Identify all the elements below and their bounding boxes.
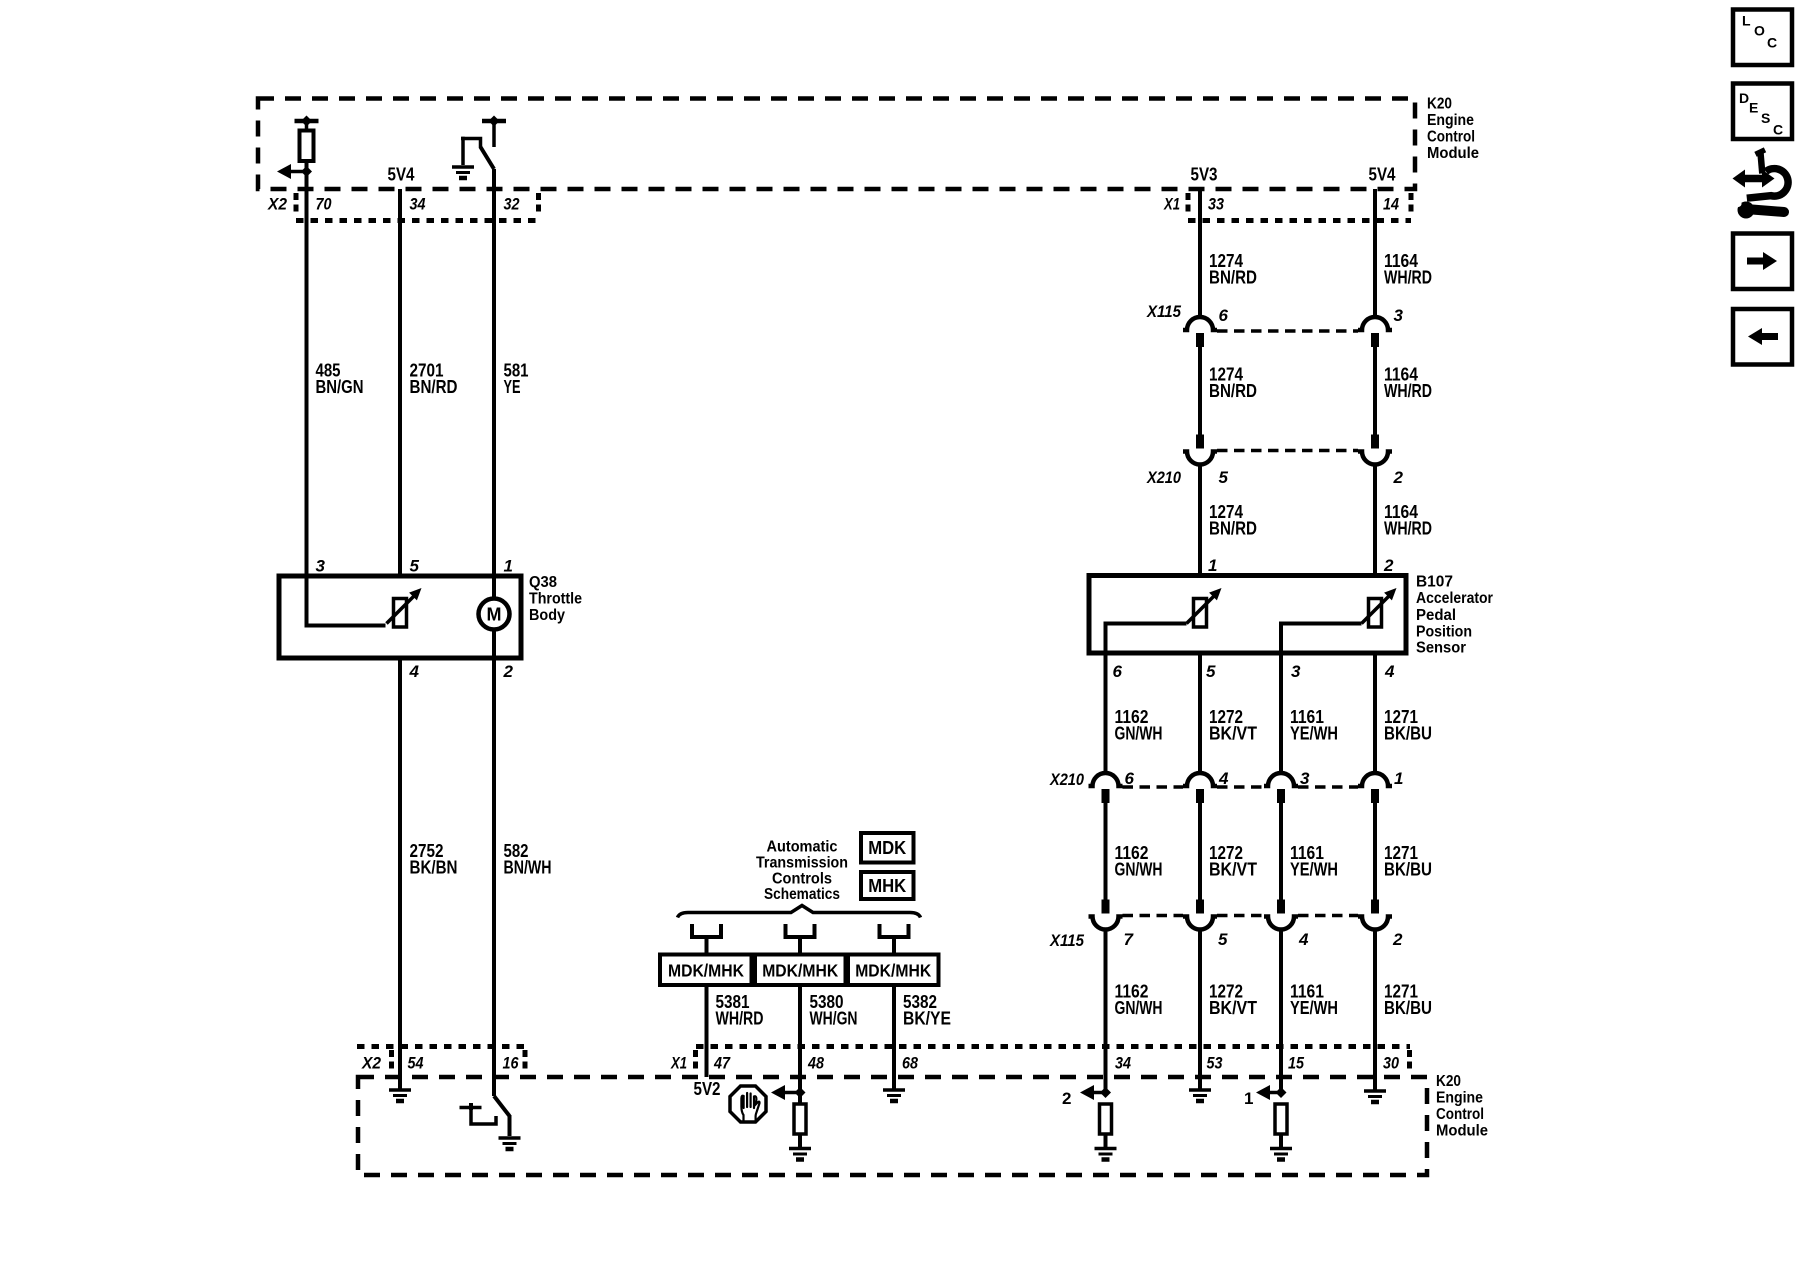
svg-text:3: 3 — [1300, 769, 1310, 788]
ground pin 34 — [1095, 1149, 1117, 1160]
label K20 Engine Control Module (bottom) — [1436, 1073, 1488, 1140]
svg-text:BN/RD: BN/RD — [410, 377, 458, 397]
motor M (throttle actuator) — [479, 599, 510, 630]
svg-text:K20: K20 — [1427, 96, 1452, 113]
wire 485 BN/GN — [305, 172, 309, 577]
ground pin 54 — [389, 1090, 411, 1101]
svg-text:68: 68 — [902, 1054, 918, 1073]
svg-text:MDK/MHK: MDK/MHK — [668, 961, 744, 981]
svg-text:1: 1 — [1208, 556, 1217, 575]
svg-text:Pedal: Pedal — [1416, 607, 1456, 624]
switch pin 16 inside bottom ECM — [460, 1096, 510, 1136]
svg-text:X2: X2 — [361, 1054, 381, 1073]
ECM module box K20 (bottom), dashed — [358, 1077, 1427, 1175]
label 1164 WH/RD (2) — [1384, 365, 1432, 402]
arrow to other sheet (left) — [277, 164, 291, 179]
label 1164 WH/RD (1) — [1384, 251, 1432, 288]
svg-text:4: 4 — [409, 662, 420, 681]
svg-text:MDK/MHK: MDK/MHK — [762, 961, 838, 981]
svg-text:BN/RD: BN/RD — [1209, 518, 1257, 538]
svg-text:C: C — [1773, 122, 1783, 138]
wire 5380 WH/GN — [798, 985, 802, 1104]
svg-text:4: 4 — [1384, 662, 1395, 681]
wire to ground pin 34 — [1104, 1134, 1108, 1147]
resistor pin 15 — [1275, 1104, 1287, 1134]
svg-text:X1: X1 — [670, 1054, 687, 1073]
label 1162 GN/WH (2) — [1115, 843, 1163, 880]
label 1272 BK/VT (3) — [1209, 982, 1257, 1019]
svg-text:47: 47 — [713, 1054, 731, 1073]
svg-text:BK/BU: BK/BU — [1384, 998, 1432, 1018]
svg-text:Engine: Engine — [1436, 1090, 1483, 1107]
svg-text:Body: Body — [529, 607, 565, 624]
svg-text:Controls: Controls — [772, 871, 832, 888]
svg-text:X2: X2 — [267, 195, 287, 214]
label 2701 BN/RD — [410, 360, 458, 397]
wire 5381 WH/RD — [705, 985, 709, 1077]
ground pin 16 — [499, 1138, 521, 1149]
svg-text:34: 34 — [1115, 1054, 1131, 1073]
wire 2752 BK/BN — [398, 658, 402, 1090]
svg-text:48: 48 — [807, 1054, 824, 1073]
svg-text:Accelerator: Accelerator — [1416, 590, 1493, 607]
wire (internal) from resistor to pin 70 — [305, 161, 309, 220]
svg-text:2: 2 — [1392, 930, 1403, 949]
svg-text:6: 6 — [1219, 306, 1229, 325]
svg-text:YE/WH: YE/WH — [1290, 860, 1338, 880]
label 5380 WH/GN — [810, 992, 858, 1029]
label 5381 WH/RD — [716, 992, 764, 1029]
label 1271 BK/BU (3) — [1384, 982, 1432, 1019]
svg-text:7: 7 — [1124, 930, 1135, 949]
icon box forward arrow — [1733, 234, 1792, 290]
destination box MDK/MHK 1 — [660, 955, 752, 986]
svg-text:BN/GN: BN/GN — [316, 377, 364, 397]
svg-text:Schematics: Schematics — [764, 886, 840, 903]
svg-text:4: 4 — [1298, 930, 1309, 949]
arrow at pin 34 — [1080, 1085, 1111, 1100]
wire 1274 BN/RD (seg 2) — [1198, 347, 1202, 435]
wire 1164 WH/RD (seg 3) — [1373, 464, 1377, 577]
svg-text:YE: YE — [504, 377, 521, 397]
label 2752 BK/BN — [410, 841, 458, 878]
receptacle symbol at 894 — [880, 924, 909, 937]
svg-text:3: 3 — [316, 557, 326, 576]
svg-text:5: 5 — [1219, 468, 1229, 487]
wire 5382 BK/YE — [892, 985, 896, 1090]
wire through motor — [492, 576, 496, 658]
svg-text:2: 2 — [1393, 468, 1404, 487]
label K20 Engine Control Module (top) — [1427, 96, 1479, 163]
svg-text:E: E — [1749, 100, 1758, 116]
svg-text:X1: X1 — [1163, 195, 1180, 214]
throttle body Q38 box — [279, 576, 521, 658]
svg-text:5: 5 — [1206, 662, 1216, 681]
label 485 BN/GN — [316, 360, 364, 397]
svg-text:S: S — [1761, 110, 1770, 126]
svg-text:X115: X115 — [1049, 931, 1084, 950]
connector X2 (bottom) — [357, 1047, 525, 1073]
ground pin 68 — [883, 1090, 905, 1101]
label 1162 GN/WH (3) — [1115, 982, 1163, 1019]
connector X2 (top) — [267, 193, 538, 221]
svg-text:53: 53 — [1207, 1054, 1223, 1073]
wiper wire 2 inside B107 — [1281, 624, 1362, 654]
receptacle symbol at 706.5 — [692, 924, 721, 937]
label 1161 YE/WH (1) — [1290, 707, 1338, 744]
svg-text:54: 54 — [408, 1054, 424, 1073]
svg-text:GN/WH: GN/WH — [1115, 723, 1163, 743]
svg-text:WH/RD: WH/RD — [1384, 518, 1432, 538]
label Q38 Throttle Body — [529, 574, 582, 624]
wires seg6 — [1106, 929, 1376, 1093]
svg-text:GN/WH: GN/WH — [1115, 998, 1163, 1018]
octagon hand warning icon — [730, 1086, 766, 1122]
svg-text:Transmission: Transmission — [756, 855, 848, 872]
svg-text:BK/BU: BK/BU — [1384, 860, 1432, 880]
icon box LOC — [1733, 10, 1792, 66]
svg-text:MDK: MDK — [868, 838, 906, 858]
icon wiring repair (arrows + wrench) — [1731, 150, 1789, 219]
potentiometer 2 (B107) — [1362, 588, 1397, 627]
wire 1164 WH/RD (seg 1) — [1373, 189, 1377, 319]
svg-text:Engine: Engine — [1427, 112, 1474, 129]
svg-text:BN/WH: BN/WH — [504, 857, 552, 877]
svg-text:Control: Control — [1427, 129, 1475, 146]
svg-text:BK/BU: BK/BU — [1384, 723, 1432, 743]
label B107 Accelerator Pedal Position Sensor — [1416, 574, 1493, 657]
svg-text:Control: Control — [1436, 1106, 1484, 1123]
svg-text:BK/VT: BK/VT — [1209, 723, 1257, 743]
wiper wire 1 inside B107 — [1106, 624, 1187, 654]
svg-text:C: C — [1767, 35, 1777, 51]
svg-text:X115: X115 — [1146, 302, 1181, 321]
connector X1 (top) — [1163, 193, 1411, 221]
label 1272 BK/VT (1) — [1209, 707, 1257, 744]
svg-text:14: 14 — [1383, 195, 1399, 214]
wire 1274 BN/RD (seg 1) — [1198, 189, 1202, 319]
svg-text:BK/YE: BK/YE — [903, 1009, 951, 1029]
svg-text:70: 70 — [316, 195, 332, 214]
label 1274 BN/RD (1) — [1209, 251, 1257, 288]
wire to ground pin 48 — [798, 1134, 802, 1147]
connector X1 (bottom) — [670, 1047, 1410, 1073]
destination box MDK/MHK 2 — [755, 955, 846, 986]
potentiometer 1 (B107) — [1187, 588, 1222, 627]
potentiometer (TP sensor) Q38 — [387, 588, 422, 627]
wire 2701 BN/RD — [398, 189, 402, 576]
wire 1274 BN/RD (seg 3) — [1198, 464, 1202, 577]
inline connector X210 (pins 5,2) — [1146, 435, 1392, 488]
svg-text:Automatic: Automatic — [767, 839, 838, 856]
label 1162 GN/WH (1) — [1115, 707, 1163, 744]
svg-text:B107: B107 — [1416, 574, 1453, 591]
svg-text:5: 5 — [1218, 930, 1228, 949]
code box MDK — [861, 833, 914, 863]
code box MHK — [861, 872, 914, 899]
arrow at pin 15 — [1256, 1085, 1287, 1100]
svg-text:30: 30 — [1383, 1054, 1399, 1073]
svg-text:X210: X210 — [1146, 468, 1181, 487]
svg-text:6: 6 — [1125, 769, 1135, 788]
svg-text:Q38: Q38 — [529, 574, 557, 591]
icon box DESC — [1733, 84, 1792, 140]
label 1271 BK/BU (2) — [1384, 843, 1432, 880]
label 5382 BK/YE — [903, 992, 951, 1029]
svg-text:K20: K20 — [1436, 1073, 1461, 1090]
svg-text:33: 33 — [1208, 195, 1224, 214]
wire 581 YE — [492, 169, 496, 576]
svg-text:X210: X210 — [1049, 770, 1084, 789]
svg-text:1: 1 — [1394, 769, 1403, 788]
label 581 YE — [504, 360, 529, 397]
label 1274 BN/RD (3) — [1209, 502, 1257, 539]
ground pin 30 — [1364, 1091, 1386, 1102]
svg-text:BN/RD: BN/RD — [1209, 268, 1257, 288]
svg-text:BN/RD: BN/RD — [1209, 381, 1257, 401]
svg-text:3: 3 — [1394, 306, 1404, 325]
svg-text:GN/WH: GN/WH — [1115, 860, 1163, 880]
svg-text:WH/RD: WH/RD — [1384, 381, 1432, 401]
label 1272 BK/VT (2) — [1209, 843, 1257, 880]
inline connector X115 (pins 7,5,4,2) — [1049, 900, 1392, 951]
svg-text:2: 2 — [1383, 556, 1394, 575]
label 1271 BK/BU (1) — [1384, 707, 1432, 744]
wire to ground pin 15 — [1279, 1134, 1283, 1147]
label 1274 BN/RD (2) — [1209, 365, 1257, 402]
svg-text:5V2: 5V2 — [694, 1079, 721, 1099]
wire 582 BN/WH — [492, 658, 496, 1096]
svg-text:L: L — [1742, 13, 1751, 29]
inline connector X115 (pins 6,3) — [1146, 302, 1392, 347]
svg-text:5V4: 5V4 — [388, 165, 415, 185]
ground pin 53 — [1189, 1090, 1211, 1101]
svg-text:WH/RD: WH/RD — [1384, 268, 1432, 288]
svg-text:Module: Module — [1427, 145, 1479, 162]
svg-text:MHK: MHK — [868, 876, 906, 896]
svg-text:D: D — [1739, 90, 1749, 106]
ground pin 48 — [789, 1149, 811, 1160]
svg-text:WH/RD: WH/RD — [716, 1009, 764, 1029]
label 1164 WH/RD (3) — [1384, 502, 1432, 539]
svg-text:4: 4 — [1218, 769, 1229, 788]
svg-text:YE/WH: YE/WH — [1290, 998, 1338, 1018]
svg-text:34: 34 — [410, 195, 426, 214]
svg-text:Module: Module — [1436, 1123, 1488, 1140]
svg-text:15: 15 — [1288, 1054, 1304, 1073]
svg-text:Throttle: Throttle — [529, 591, 582, 608]
destination box MDK/MHK 3 — [848, 955, 939, 986]
svg-text:5V4: 5V4 — [1369, 165, 1396, 185]
svg-text:3: 3 — [1291, 662, 1301, 681]
brace — [678, 906, 921, 918]
wires seg4 below B107 — [1106, 653, 1376, 774]
switch contact inside top ECM — [461, 116, 506, 170]
resistor pin 34 — [1100, 1104, 1112, 1134]
svg-text:5: 5 — [410, 557, 420, 576]
inline connector X210 (pins 6,4,3,1) — [1049, 770, 1392, 803]
icon box back arrow — [1733, 309, 1792, 365]
wires seg5 — [1106, 803, 1376, 900]
svg-text:16: 16 — [503, 1054, 519, 1073]
svg-text:1: 1 — [504, 557, 513, 576]
label 1161 YE/WH (2) — [1290, 843, 1338, 880]
svg-text:BK/VT: BK/VT — [1209, 860, 1257, 880]
svg-text:1: 1 — [1244, 1089, 1253, 1108]
label 582 BN/WH — [504, 841, 552, 878]
wiper wire inside Q38 — [307, 576, 386, 626]
svg-text:WH/GN: WH/GN — [810, 1009, 858, 1029]
wire 1164 WH/RD (seg 2) — [1373, 347, 1377, 435]
note Automatic Transmission Controls Schematics — [756, 839, 848, 904]
receptacle symbol at 800 — [786, 924, 815, 937]
svg-text:BK/VT: BK/VT — [1209, 998, 1257, 1018]
resistor pin 48 — [794, 1104, 806, 1134]
svg-text:Position: Position — [1416, 624, 1472, 641]
svg-text:6: 6 — [1113, 662, 1123, 681]
svg-text:M: M — [487, 605, 502, 625]
svg-text:5V3: 5V3 — [1191, 165, 1218, 185]
junction node on wire 485 — [301, 166, 312, 177]
ground pin 15 — [1270, 1149, 1292, 1160]
svg-text:O: O — [1754, 23, 1765, 39]
svg-text:BK/BN: BK/BN — [410, 857, 458, 877]
svg-text:32: 32 — [504, 195, 520, 214]
svg-text:2: 2 — [1062, 1089, 1071, 1108]
ECM module box K20 (top), dashed — [258, 99, 1415, 190]
resistor (feed) inside top ECM — [295, 116, 319, 162]
svg-text:MDK/MHK: MDK/MHK — [855, 961, 931, 981]
svg-text:YE/WH: YE/WH — [1290, 723, 1338, 743]
svg-text:Sensor: Sensor — [1416, 640, 1466, 657]
label 1161 YE/WH (3) — [1290, 982, 1338, 1019]
accelerator pedal sensor B107 box — [1089, 576, 1406, 654]
ground inside top ECM — [452, 167, 474, 178]
arrow at pin 48 — [771, 1085, 806, 1100]
svg-text:2: 2 — [503, 662, 514, 681]
